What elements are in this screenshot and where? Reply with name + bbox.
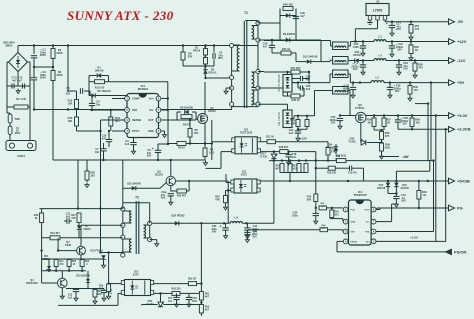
svg-text:10n: 10n — [96, 102, 101, 106]
wire B+ 310V top bus — [18, 45, 258, 47]
label C19 value — [348, 172, 358, 175]
svg-text:PGO: PGO — [365, 210, 370, 212]
wire ic5 riser — [108, 253, 110, 284]
wire gate lead — [196, 118, 198, 120]
resistor R13 — [68, 116, 79, 126]
capacitor C48 — [186, 297, 192, 299]
resistor R5 — [188, 128, 199, 137]
diode D12 — [303, 55, 318, 64]
wire sense top bus +5V — [269, 160, 434, 162]
MOSFET Q1 K2545 — [198, 106, 217, 124]
label R8 value — [183, 123, 190, 126]
svg-text:D11 F12C20: D11 F12C20 — [278, 111, 281, 126]
transformer T1 secondary winding lower — [252, 90, 254, 105]
output terminal +5VSB — [449, 178, 470, 184]
svg-text:R22: R22 — [72, 261, 77, 263]
svg-text:50V: 50V — [401, 199, 406, 203]
wire R30 gnd lead — [86, 180, 88, 182]
wire pin4 RTCT wire — [112, 130, 125, 132]
optocoupler IC5 817C — [121, 270, 153, 296]
svg-text:1R: 1R — [387, 120, 390, 124]
capacitor C1 — [31, 48, 47, 58]
capacitor C11 — [66, 212, 71, 224]
diode D16 — [394, 183, 398, 187]
svg-text:15K: 15K — [68, 101, 73, 105]
ground D19 ground — [102, 263, 106, 268]
svg-text:ZD1: ZD1 — [44, 256, 49, 258]
output terminal +5V — [449, 80, 465, 86]
svg-text:+3.3VB: +3.3VB — [457, 127, 471, 132]
T2 right pins — [148, 221, 152, 242]
wire t2 pin3 wire — [42, 237, 123, 239]
wire q7 base — [58, 238, 77, 251]
choke L1 winding B — [333, 57, 348, 65]
T2 feedback winding — [129, 239, 131, 252]
wire left line to THR1 — [7, 107, 10, 114]
svg-text:+3.3V: +3.3V — [457, 113, 468, 118]
wire R5 leads — [189, 120, 191, 144]
label R25 value — [97, 291, 102, 296]
svg-text:25V: 25V — [403, 67, 408, 71]
svg-text:R19 4K7: R19 4K7 — [50, 232, 60, 235]
wire fb wire — [288, 151, 316, 153]
svg-text:R23: R23 — [85, 261, 90, 263]
svg-text:PG: PG — [457, 205, 463, 210]
wire standby rail 2 — [242, 220, 274, 223]
output terminal -5V — [449, 19, 464, 25]
svg-text:R8 47: R8 47 — [183, 123, 190, 126]
label R47 value — [291, 67, 301, 70]
svg-text:25V: 25V — [253, 231, 258, 234]
label R33 value — [177, 195, 187, 198]
wire pin3 drop — [100, 120, 102, 131]
resistor R66 — [305, 120, 309, 127]
label R29 value — [99, 286, 104, 291]
wire r52 leads — [410, 42, 412, 56]
svg-text:1N4148: 1N4148 — [377, 187, 386, 190]
wire c35 gnd — [315, 216, 317, 219]
wire fb riser — [315, 152, 317, 194]
svg-text:50V: 50V — [212, 231, 217, 234]
wire choke D riser — [314, 91, 316, 116]
resistor R9 — [177, 142, 186, 146]
svg-text:100n: 100n — [192, 301, 198, 303]
wire q7 emitter — [42, 255, 104, 259]
T2 secondary winding — [144, 225, 146, 238]
wire -12V wire — [321, 60, 333, 61]
wire D12 wire — [296, 40, 321, 62]
svg-text:-12V: -12V — [457, 58, 466, 63]
supervisor IC4 TPS3510P — [343, 200, 376, 245]
wire bridge bottom to Y-cap junction — [17, 72, 19, 87]
wire left riser b — [100, 131, 102, 209]
capacitor C34 — [244, 228, 250, 230]
svg-text:C48: C48 — [192, 297, 197, 300]
junction fb nodes — [273, 150, 290, 152]
transformer T2 core — [136, 201, 139, 254]
junction vcc node — [395, 192, 397, 194]
svg-text:R48 4K7: R48 4K7 — [279, 146, 289, 149]
resistor R63 — [188, 282, 196, 286]
svg-text:16V: 16V — [353, 67, 358, 71]
svg-text:R61: R61 — [205, 294, 210, 296]
label D4 label — [95, 67, 104, 73]
svg-text:4K7: 4K7 — [194, 131, 199, 135]
svg-text:5VS: 5VS — [351, 232, 356, 234]
junction r13 c10 node — [99, 130, 110, 132]
wire r64 leads — [418, 181, 420, 208]
junction 3.3vb nodes — [411, 128, 447, 130]
wire IC2 right bottom wire — [261, 151, 280, 153]
svg-text:R34: R34 — [275, 165, 280, 168]
U3 ground — [367, 20, 373, 24]
ground C15 ground — [390, 52, 394, 57]
svg-text:T2: T2 — [135, 196, 139, 200]
ground C13 ground — [74, 296, 78, 301]
wire r39 wire — [316, 168, 364, 181]
diode D19 — [101, 255, 105, 259]
ground IC1 pin5 ground — [163, 133, 167, 138]
shunt regulator D23 — [348, 137, 365, 146]
T1 right pin nodes — [256, 21, 260, 106]
svg-text:OUT: OUT — [148, 119, 154, 122]
svg-text:+5VSB: +5VSB — [457, 178, 470, 183]
transistor Q4 KSP2222A — [58, 278, 68, 288]
junction c23 top — [271, 39, 273, 41]
svg-text:+3.3V: +3.3V — [410, 236, 418, 240]
label C7 value — [95, 148, 100, 154]
wire c47 leads — [176, 293, 178, 302]
wire R30 drop — [86, 160, 88, 171]
svg-text:ER504: ER504 — [83, 228, 91, 231]
bridge rectifier BR1-BR4 — [9, 53, 28, 72]
wire drain riser — [204, 46, 206, 114]
svg-text:16V: 16V — [402, 122, 407, 126]
junction r61 node — [200, 301, 202, 303]
wire R9 left — [168, 143, 177, 145]
thermistor THR1 — [8, 114, 20, 123]
wire r51 lead — [410, 22, 412, 35]
svg-text:KSP2222A: KSP2222A — [26, 282, 38, 285]
wire R7 to ground — [204, 156, 206, 160]
svg-text:+5V: +5V — [402, 155, 407, 159]
svg-text:10n: 10n — [168, 301, 173, 303]
resistor R61 — [199, 292, 203, 301]
junction r55 nodes — [297, 115, 308, 131]
svg-text:27K: 27K — [188, 54, 193, 58]
svg-text:R63 1R: R63 1R — [188, 278, 196, 281]
svg-text:TL431: TL431 — [146, 302, 154, 306]
wire q3 collector — [170, 160, 172, 176]
wire -5V rail — [385, 20, 449, 22]
resistor R25 — [93, 290, 97, 298]
wire left riser a — [77, 160, 79, 209]
svg-text:R29: R29 — [99, 286, 104, 288]
svg-text:10K: 10K — [68, 119, 73, 123]
wire doubler midpoint link — [34, 66, 53, 68]
transformer T1 core — [244, 21, 247, 108]
inductor L2 — [371, 76, 384, 83]
label +12V tag — [300, 136, 307, 140]
svg-text:10n: 10n — [292, 155, 297, 159]
label R39 value — [327, 172, 337, 175]
junction aux cross — [227, 189, 229, 191]
svg-text:57K2: 57K2 — [331, 149, 338, 153]
label C4 value — [66, 87, 71, 96]
resistor R55 — [291, 119, 300, 127]
resistor R35 — [224, 196, 228, 203]
svg-text:817C: 817C — [133, 272, 139, 276]
svg-text:CON1: CON1 — [17, 154, 25, 158]
svg-text:220K: 220K — [56, 73, 62, 77]
wire D11 out — [290, 116, 315, 119]
label D16 label — [400, 184, 409, 190]
junction d10 top node — [286, 71, 310, 73]
svg-text:TL431: TL431 — [348, 139, 356, 143]
svg-text:2n2: 2n2 — [289, 131, 294, 135]
capacitor C7 — [100, 149, 106, 151]
svg-text:PS/ON: PS/ON — [454, 249, 467, 254]
label C10 value — [102, 135, 107, 141]
svg-text:675: 675 — [385, 134, 390, 138]
wire C5 leads — [91, 96, 93, 111]
wire THR1 to F1 — [9, 123, 11, 126]
wire c29 wire — [292, 78, 309, 80]
inductor L1A — [335, 46, 346, 48]
wire r59 bottom — [367, 143, 382, 155]
wire C9 leads — [133, 134, 135, 150]
junction q3 out nodes — [188, 180, 190, 182]
wire divider top wire — [89, 95, 130, 97]
wire R9 right to sense node — [186, 143, 212, 145]
optocoupler IC2 TCET1103 — [232, 128, 261, 154]
junction top bus nodes — [33, 44, 215, 46]
resistor D2R4a — [204, 49, 208, 56]
svg-text:TPS3510P: TPS3510P — [354, 193, 367, 197]
junction R2-R3 mid — [52, 66, 54, 68]
wire pin6 5v sense — [376, 83, 433, 232]
resistor R46 — [291, 94, 300, 98]
capacitor CY2 — [22, 83, 24, 88]
label BR1-BR4 designator — [3, 41, 15, 48]
svg-text:FR153: FR153 — [353, 53, 361, 57]
wire pin5 3.3v sense — [376, 116, 445, 241]
wire C1-C2 link — [33, 59, 35, 78]
resistor R10 — [95, 80, 105, 84]
svg-text:0.22: 0.22 — [209, 150, 215, 154]
ground C32 ground — [388, 93, 392, 98]
wire R47 wire — [258, 72, 309, 85]
capacitor C25 — [395, 116, 409, 126]
resistor R58 — [380, 131, 390, 140]
label R44 value — [283, 4, 293, 7]
wire standby emitter bus — [42, 270, 86, 272]
wire 7905 input leg — [355, 20, 377, 29]
wire q4 sense link — [100, 209, 102, 253]
wire c31a stub — [352, 83, 354, 87]
svg-text:D12 1N4148: D12 1N4148 — [303, 55, 318, 59]
wire 3.3vb links — [398, 126, 412, 130]
svg-text:10K: 10K — [320, 206, 324, 208]
label R48 value — [279, 146, 289, 149]
junction q3 col node — [102, 159, 172, 161]
wire c14 leads — [103, 289, 105, 297]
resistor R6 — [181, 52, 193, 61]
ground R35 ground — [224, 205, 228, 210]
output terminal +3.3V — [449, 113, 468, 119]
label C48 value — [192, 297, 198, 303]
capacitor C3a — [80, 88, 82, 94]
label R1 value — [16, 97, 26, 101]
wire r46 wire — [258, 88, 304, 96]
ground C4b ground — [361, 70, 365, 75]
label R40 value — [307, 196, 312, 202]
wire +5V sense riser — [415, 104, 428, 161]
svg-text:R21: R21 — [59, 261, 64, 263]
wire c20 leads — [362, 42, 364, 52]
wire T1 bottom link — [232, 104, 258, 106]
wire t2 left rail — [123, 209, 132, 255]
wire L1A out — [348, 42, 374, 47]
junction sense bot node — [289, 180, 291, 182]
diode D22 — [171, 214, 185, 226]
wire c15 leads — [391, 42, 393, 53]
capacitor C17 — [386, 22, 402, 32]
title SUNNY ATX - 230 — [67, 8, 174, 23]
shunt regulator D17 — [260, 152, 278, 159]
resistor R22 — [67, 260, 71, 267]
label +5V feed note — [403, 155, 408, 159]
capacitor C5 — [89, 100, 101, 107]
junction riser nodes — [77, 207, 102, 209]
wire pin2 wire — [330, 219, 343, 222]
svg-text:L7905: L7905 — [373, 9, 383, 13]
label R19 value — [50, 232, 60, 235]
svg-text:D22 FR302: D22 FR302 — [171, 214, 185, 218]
wire D10 bottom lead — [287, 92, 289, 96]
wire d17 leads — [273, 152, 275, 221]
wire q3 out — [176, 180, 229, 182]
svg-text:2n2: 2n2 — [125, 142, 130, 146]
svg-text:PT010L: PT010L — [355, 106, 365, 110]
resistor R62 — [172, 291, 180, 295]
inductor L5 — [230, 216, 242, 224]
ground R29 ground — [107, 294, 111, 299]
wire c28 wire — [292, 83, 304, 88]
wire sense feedback riser — [211, 120, 213, 160]
resistor R30 — [85, 171, 95, 181]
wire r2x bottoms — [56, 267, 82, 271]
wire pin2 VFB wire — [90, 109, 125, 111]
wire r50 leads — [414, 61, 416, 74]
svg-text:+12V: +12V — [457, 39, 467, 44]
junction vcc c6 node — [167, 97, 170, 145]
svg-text:2n2: 2n2 — [306, 87, 311, 91]
ground earth at Y-cap junction — [16, 89, 20, 94]
svg-text:4K7: 4K7 — [115, 119, 120, 123]
diode D14 — [353, 50, 361, 63]
svg-text:47K: 47K — [215, 198, 220, 201]
svg-text:4n7: 4n7 — [300, 14, 305, 18]
capacitor C13 — [73, 289, 79, 291]
svg-text:Vcc: Vcc — [149, 109, 154, 112]
wire pin7 vcc — [376, 204, 396, 222]
label R61 value — [205, 294, 210, 299]
label +5V sense tag — [402, 155, 407, 159]
svg-text:110: 110 — [413, 88, 418, 92]
wire t2fb to ic5 node — [101, 252, 109, 254]
svg-text:100n: 100n — [353, 45, 359, 49]
svg-text:R44 1K5: R44 1K5 — [283, 4, 293, 7]
svg-text:K2545: K2545 — [208, 109, 216, 113]
capacitor C32 — [387, 84, 401, 94]
svg-text:MC3843: MC3843 — [138, 87, 149, 91]
inductor L1D — [335, 91, 346, 93]
wire bridge top to +bus — [17, 46, 19, 53]
choke L1 winding A — [333, 42, 348, 50]
junction doubler midpoint — [33, 66, 35, 68]
wire wire to C4 top — [68, 90, 77, 92]
ground C31b ground — [394, 202, 398, 207]
capacitor C10 — [106, 140, 112, 142]
wire +12V feed — [258, 39, 264, 41]
junction stub node — [427, 102, 429, 104]
wire T1 top link — [246, 21, 259, 24]
wire R6 leads — [183, 46, 214, 67]
wire c25 leads — [397, 116, 399, 126]
wire sb divider riser — [200, 223, 202, 291]
wire C23 leads — [271, 40, 273, 53]
svg-text:200V: 200V — [40, 53, 46, 57]
wire r35 wires — [226, 191, 231, 206]
label R18 value — [336, 155, 347, 158]
capacitor C8 — [161, 190, 174, 200]
label R27 value — [71, 214, 76, 220]
ground R51 ground — [409, 35, 413, 40]
resistor R16 — [326, 147, 338, 156]
ground T2 secondary ground — [155, 242, 159, 247]
capacitor C4b — [351, 62, 366, 72]
junction r5 top — [189, 119, 191, 121]
resistor R52 — [409, 45, 419, 54]
label R23 value — [85, 261, 90, 266]
svg-text:10n: 10n — [95, 151, 100, 154]
ground C34 ground — [245, 234, 249, 239]
wire c33 leads — [225, 223, 227, 233]
junction ic5 nodes — [107, 251, 109, 284]
diode D5 1N4148 — [91, 89, 111, 98]
MOSFET Q6 P3NB — [355, 103, 366, 123]
svg-text:16V: 16V — [395, 89, 400, 93]
resistor R21 — [54, 260, 58, 267]
svg-text:R33 4K7: R33 4K7 — [177, 195, 187, 198]
svg-text:100u: 100u — [292, 213, 298, 217]
wire pin4 psonw — [337, 241, 452, 252]
transformer T1 secondary winding upper — [252, 26, 254, 40]
wire t2 top frame — [123, 203, 150, 224]
ground R52 ground — [409, 56, 413, 61]
junction 5vsb nodes — [347, 180, 429, 182]
junction sense node — [189, 142, 213, 144]
capacitor C35 — [292, 211, 319, 218]
wire c16 gnd — [288, 152, 290, 160]
svg-text:4n7: 4n7 — [306, 77, 311, 81]
wire +12V rail — [386, 41, 449, 43]
capacitor C28 — [300, 84, 311, 91]
wire zd2 leads — [87, 271, 89, 289]
wire base wire — [123, 183, 167, 189]
wire ic5 right top — [154, 283, 189, 285]
